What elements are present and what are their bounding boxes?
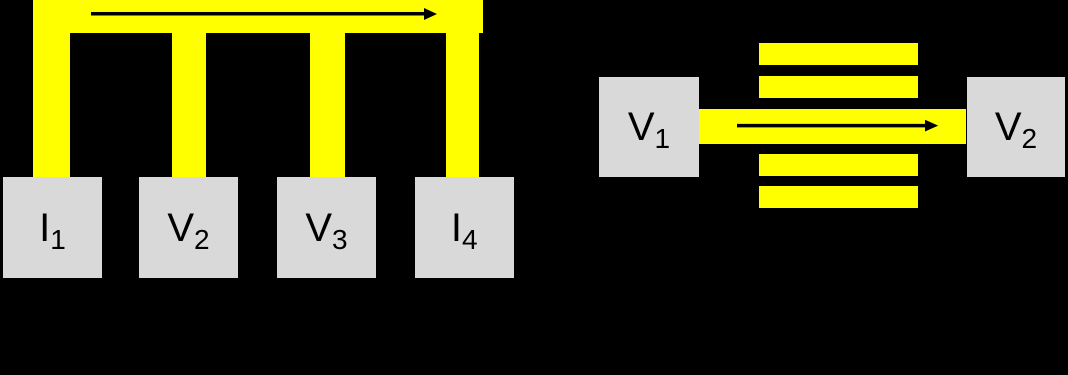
wire leg to pad I4 — [446, 0, 479, 177]
pad V3 — [277, 177, 376, 278]
current flow arrow (right) — [700, 110, 960, 144]
finger bar 4 (bottom) — [759, 186, 918, 208]
wire leg to pad I1 — [33, 0, 70, 177]
wire leg to pad V3 — [310, 0, 345, 177]
finger bar 1 (top) — [759, 43, 918, 65]
finger bar 2 — [759, 76, 918, 98]
current flow arrow (left) — [0, 0, 540, 40]
pad V2 (right) — [967, 77, 1065, 177]
wire leg to pad V2 — [172, 0, 206, 177]
bus bar (top) — [33, 0, 483, 33]
finger bar 3 — [759, 154, 918, 176]
pad V2 — [139, 177, 238, 278]
pad V1 — [599, 77, 699, 177]
pad I1 — [3, 177, 102, 278]
pad I4 — [415, 177, 514, 278]
main conductor bar V1-V2 — [699, 109, 966, 144]
